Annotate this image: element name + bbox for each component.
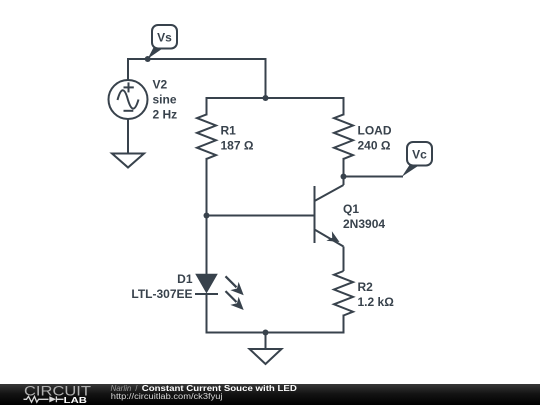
LED light arrow 1 bbox=[226, 276, 237, 287]
svg-text:LTL-307EE: LTL-307EE bbox=[131, 287, 192, 301]
resistor LOAD bbox=[334, 114, 353, 158]
voltage source V2 bbox=[109, 80, 148, 119]
node Vs flag bbox=[148, 25, 177, 59]
wire ground stub bottom bbox=[265, 333, 267, 350]
svg-text:D1: D1 bbox=[177, 272, 193, 286]
resistor R2 bbox=[334, 271, 353, 316]
svg-text:R1: R1 bbox=[221, 124, 237, 138]
svg-text:http://circuitlab.com/ck3fyuj: http://circuitlab.com/ck3fyuj bbox=[111, 392, 223, 401]
resistor R1 bbox=[197, 114, 216, 158]
svg-text:240 Ω: 240 Ω bbox=[358, 139, 391, 153]
wire R1 bottom lead bbox=[206, 159, 208, 216]
wire D1 top lead bbox=[206, 216, 208, 275]
junction dot Vs bbox=[145, 56, 151, 62]
LED light arrow 2 bbox=[226, 291, 237, 302]
junction dot collector/Vc bbox=[341, 174, 347, 180]
svg-text:Vs: Vs bbox=[157, 31, 172, 45]
wire mid horizontal rail bbox=[207, 97, 344, 99]
svg-text:2 Hz: 2 Hz bbox=[153, 107, 178, 121]
node Vc flag bbox=[402, 142, 432, 177]
wire Vc horizontal bbox=[344, 176, 403, 178]
ground (below V2) bbox=[112, 154, 144, 168]
wire V2 bottom lead bbox=[127, 120, 129, 154]
transistor Q1 bbox=[315, 177, 344, 272]
svg-text:sine: sine bbox=[153, 92, 177, 106]
wire top-right vertical drop bbox=[265, 59, 267, 98]
footer bar bbox=[0, 384, 540, 405]
svg-text:R2: R2 bbox=[358, 280, 374, 294]
wire top horizontal Vs net bbox=[128, 58, 266, 60]
wire base net horizontal bbox=[207, 215, 315, 217]
transistor Q1 emitter arrow bbox=[326, 231, 339, 242]
wire R1 top lead bbox=[206, 98, 208, 114]
wire D1 bottom lead bbox=[206, 294, 208, 333]
wire LOAD top lead bbox=[343, 98, 345, 114]
junction dot base/R1 bbox=[204, 213, 210, 219]
junction dot top rail bbox=[263, 95, 269, 101]
svg-text:1.2 kΩ: 1.2 kΩ bbox=[358, 295, 395, 309]
wire bottom horizontal rail bbox=[207, 332, 344, 334]
wire R2 bottom lead bbox=[343, 316, 345, 333]
svg-text:LAB: LAB bbox=[64, 395, 87, 405]
diode D1 (LED) bbox=[195, 275, 244, 311]
svg-text:2N3904: 2N3904 bbox=[343, 217, 385, 231]
svg-text:V2: V2 bbox=[153, 77, 168, 91]
ground (bottom) bbox=[250, 349, 282, 364]
wire V2 top lead bbox=[127, 59, 129, 80]
svg-text:Q1: Q1 bbox=[343, 202, 359, 216]
junction dot bottom/ground bbox=[263, 330, 269, 336]
svg-text:187 Ω: 187 Ω bbox=[221, 139, 254, 153]
logo squiggle resistor+diode bbox=[24, 396, 64, 402]
wire LOAD bottom lead bbox=[343, 159, 345, 177]
svg-text:LOAD: LOAD bbox=[358, 124, 392, 138]
svg-text:Vc: Vc bbox=[412, 148, 427, 162]
